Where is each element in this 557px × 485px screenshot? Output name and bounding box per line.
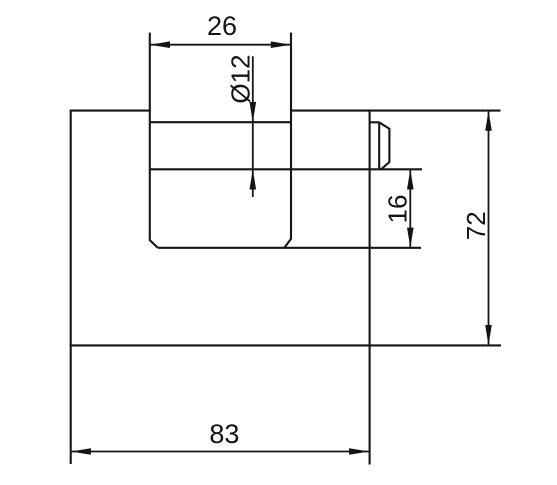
arrowhead 72 down <box>485 325 492 345</box>
svg-text:72: 72 <box>461 211 491 240</box>
svg-text:26: 26 <box>207 11 237 41</box>
body right vertical edge / extension for 83 <box>369 111 371 465</box>
arrowhead 26 right <box>271 41 291 48</box>
shackle right leg with chamfer <box>284 33 291 248</box>
dimension line 72 <box>488 111 490 346</box>
arrowhead 72 up <box>485 111 492 131</box>
body top edge right segment + extension for 72 <box>290 110 501 112</box>
arrowhead 16 down <box>407 228 414 248</box>
body top edge left segment <box>70 110 151 112</box>
shackle hole lower line + extension for 16 <box>150 168 422 170</box>
arrowhead Ø12 down <box>250 102 257 122</box>
svg-text:16: 16 <box>382 195 412 224</box>
dimension line 16 <box>409 169 411 248</box>
dimension line 83 <box>71 451 370 453</box>
body left vertical edge / extension for 83 <box>70 111 72 464</box>
arrowhead 83 left <box>71 448 91 455</box>
shackle left leg with chamfer <box>150 33 158 248</box>
shackle hole upper line <box>150 121 291 123</box>
dimension line 26 <box>150 44 291 46</box>
arrowhead 83 right <box>349 448 369 455</box>
inner plate bottom line + extension for 16 <box>158 247 421 249</box>
svg-text:83: 83 <box>209 419 239 449</box>
svg-text:Ø12: Ø12 <box>226 54 256 103</box>
dimension line Ø12 <box>252 56 254 197</box>
arrowhead 16 up <box>407 169 414 189</box>
arrowhead Ø12 up <box>250 169 257 189</box>
body bottom edge + extension for 72 <box>70 344 501 346</box>
pin outer profile <box>379 122 389 169</box>
pin top edge <box>370 121 380 123</box>
arrowhead 26 left <box>150 41 170 48</box>
pin left edge <box>378 122 380 169</box>
